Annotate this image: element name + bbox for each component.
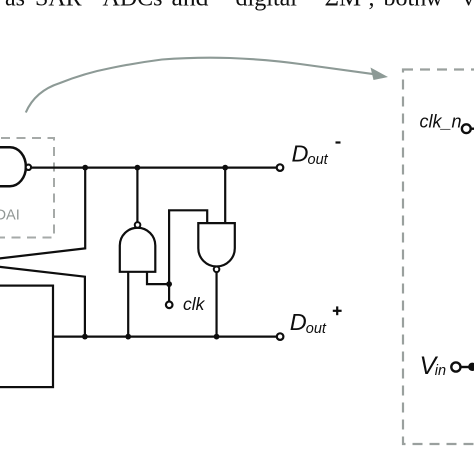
- svg-text:D: D: [292, 141, 309, 167]
- arrowhead of curved arrow: [371, 68, 389, 81]
- wire output of gate U2 to top rail: [136, 168, 138, 223]
- wire clk node to clk terminal: [168, 284, 170, 301]
- label Dout+: [290, 306, 342, 336]
- dashed box (right inset, cropped): [403, 70, 474, 445]
- wire diagonal to bottom vertical: [0, 267, 85, 337]
- svg-text:ADCs: ADCs: [103, 0, 163, 12]
- svg-text:SAR: SAR: [35, 0, 82, 12]
- wire U3 right input from top rail: [224, 168, 226, 224]
- wire stub clk_n: [471, 127, 474, 129]
- comparator core box: [0, 286, 53, 388]
- bubble of U2: [135, 222, 141, 228]
- label Vin: [420, 352, 447, 380]
- terminal clk: [166, 302, 173, 309]
- wire vertical from top rail node A: [0, 168, 85, 259]
- svg-text:v: v: [463, 0, 474, 12]
- junction dots bottom rail: [82, 334, 88, 340]
- wire clk node to U3 input: [169, 210, 207, 284]
- terminal Dout+: [277, 333, 284, 340]
- svg-text:both: both: [384, 0, 427, 12]
- wire U3 output to bottom rail: [215, 272, 217, 337]
- terminal Vin: [451, 362, 460, 371]
- terminal Dout-: [277, 164, 284, 171]
- terminal clk_n: [462, 124, 471, 133]
- gray curved arrow: [26, 58, 375, 113]
- wire bottom rail Dout+: [53, 336, 277, 338]
- svg-text:in: in: [435, 363, 446, 379]
- svg-text:out: out: [308, 152, 329, 168]
- svg-text:ΣM: ΣM: [325, 0, 362, 12]
- svg-text:and: and: [172, 0, 209, 12]
- bubble of U1: [26, 165, 31, 170]
- wire Vin: [461, 366, 474, 368]
- wire left input of U2 to bottom rail: [127, 272, 129, 337]
- svg-text:w: w: [426, 0, 444, 12]
- NAND gate U1 (comparator, cropped at left): [0, 147, 26, 186]
- NAND gate U2 (pointing up): [120, 228, 156, 272]
- cropped caption text line: [5, 0, 474, 12]
- svg-text:clk: clk: [183, 294, 206, 314]
- svg-text:as: as: [5, 0, 25, 12]
- junction dot clk node: [166, 281, 172, 287]
- dashed box DAI (left inset): [0, 138, 54, 238]
- svg-text:,: ,: [369, 0, 375, 12]
- svg-text:DAI: DAI: [0, 208, 20, 224]
- wire right input of U2 to clk node: [147, 272, 169, 284]
- junction dots top rail: [82, 165, 88, 171]
- wire top rail Dout-: [31, 167, 277, 169]
- bubble of U3: [214, 267, 220, 273]
- svg-text:digital: digital: [236, 0, 298, 12]
- NAND gate U3 (pointing down): [198, 223, 235, 266]
- label Dout-: [292, 141, 341, 169]
- junction dot Vin (cropped): [468, 363, 474, 371]
- svg-text:out: out: [306, 321, 327, 337]
- svg-text:clk_n: clk_n: [420, 112, 462, 132]
- svg-text:D: D: [290, 309, 307, 335]
